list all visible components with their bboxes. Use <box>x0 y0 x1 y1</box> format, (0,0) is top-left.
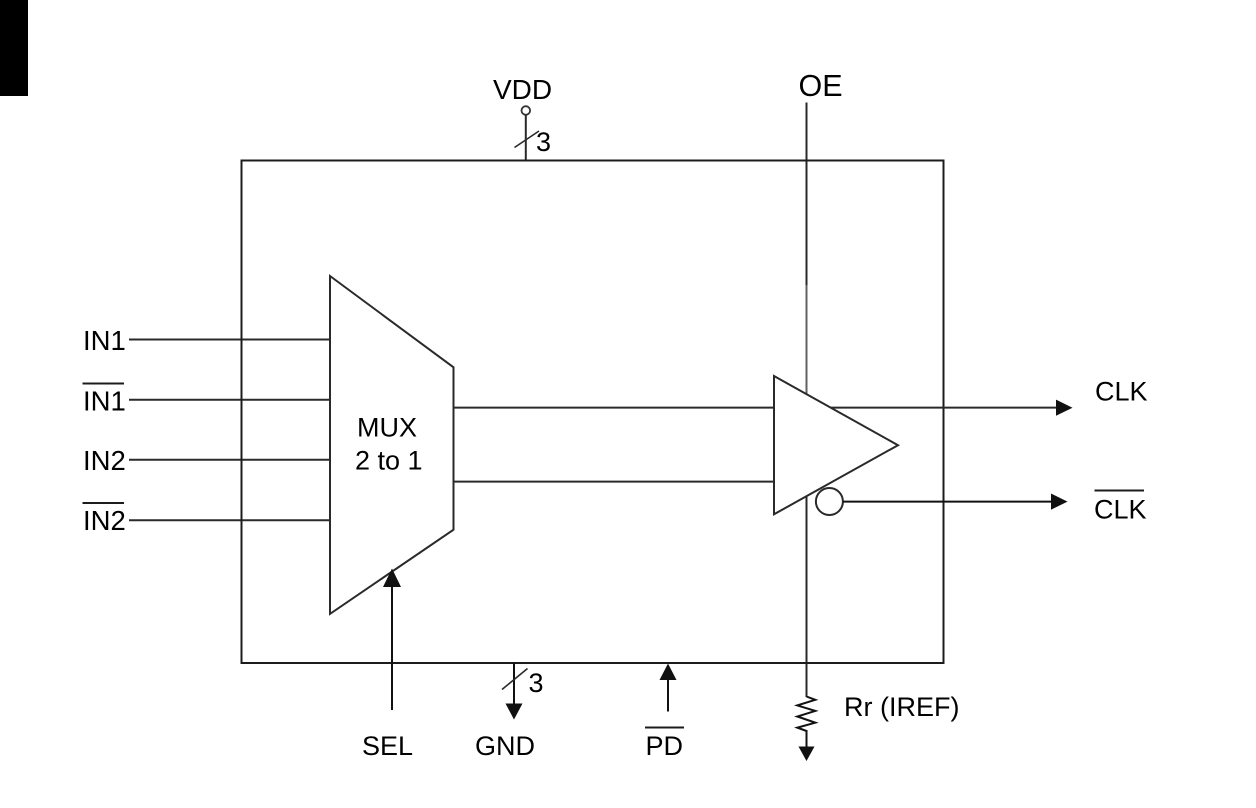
wire IN1 <box>129 339 331 341</box>
IC block outline <box>242 161 944 664</box>
inverting output bubble <box>816 488 843 515</box>
svg-text:IN1: IN1 <box>83 386 126 417</box>
svg-text:GND: GND <box>475 731 535 761</box>
CLK arrowhead <box>1056 400 1073 416</box>
VDD terminal circle <box>522 106 531 115</box>
OE wire lower segment <box>806 285 808 398</box>
SEL wire <box>391 586 393 710</box>
svg-text:2 to 1: 2 to 1 <box>355 446 423 476</box>
VDD wire <box>525 115 527 161</box>
svg-text:SEL: SEL <box>362 731 413 761</box>
PDbar arrowhead <box>660 664 677 681</box>
SEL arrowhead <box>383 569 401 588</box>
mux output wire CLK <box>453 407 1057 409</box>
resistor Rr <box>797 697 815 732</box>
OE wire below buffer <box>806 492 808 697</box>
IREF arrowhead <box>799 747 815 762</box>
wire IN2bar <box>129 519 331 521</box>
wire IN2 <box>129 459 331 461</box>
svg-text:IN2: IN2 <box>83 445 126 476</box>
svg-text:3: 3 <box>529 668 544 698</box>
VDD bus slash <box>515 131 540 148</box>
svg-text:MUX: MUX <box>357 413 417 443</box>
GND arrowhead <box>506 704 523 720</box>
GND wire <box>513 663 515 706</box>
PDbar overline <box>645 727 684 729</box>
svg-text:3: 3 <box>536 127 551 157</box>
IN1bar overline <box>83 383 125 385</box>
svg-text:IN2: IN2 <box>83 505 126 536</box>
svg-text:Rr (IREF): Rr (IREF) <box>844 692 959 722</box>
svg-text:IN1: IN1 <box>83 325 126 356</box>
svg-text:CLK: CLK <box>1094 495 1147 525</box>
output buffer U2 <box>774 376 898 514</box>
svg-text:CLK: CLK <box>1095 377 1148 407</box>
wire below resistor <box>806 730 808 748</box>
wire IN1bar <box>129 399 331 401</box>
CLKbar wire <box>843 501 1052 503</box>
PDbar wire <box>667 679 669 712</box>
OE wire <box>806 103 808 286</box>
GND bus slash <box>502 669 528 690</box>
mux output wire CLKbar side <box>453 481 800 483</box>
CLKbar arrowhead <box>1051 494 1068 510</box>
svg-text:VDD: VDD <box>493 74 552 105</box>
multiplexer U1 MUX 2 to 1 <box>330 276 454 614</box>
CLKbar overline <box>1095 490 1145 492</box>
black sidebar tab <box>0 0 28 96</box>
IN2bar overline <box>83 502 125 504</box>
svg-text:OE: OE <box>799 69 843 103</box>
svg-text:PD: PD <box>646 731 684 761</box>
